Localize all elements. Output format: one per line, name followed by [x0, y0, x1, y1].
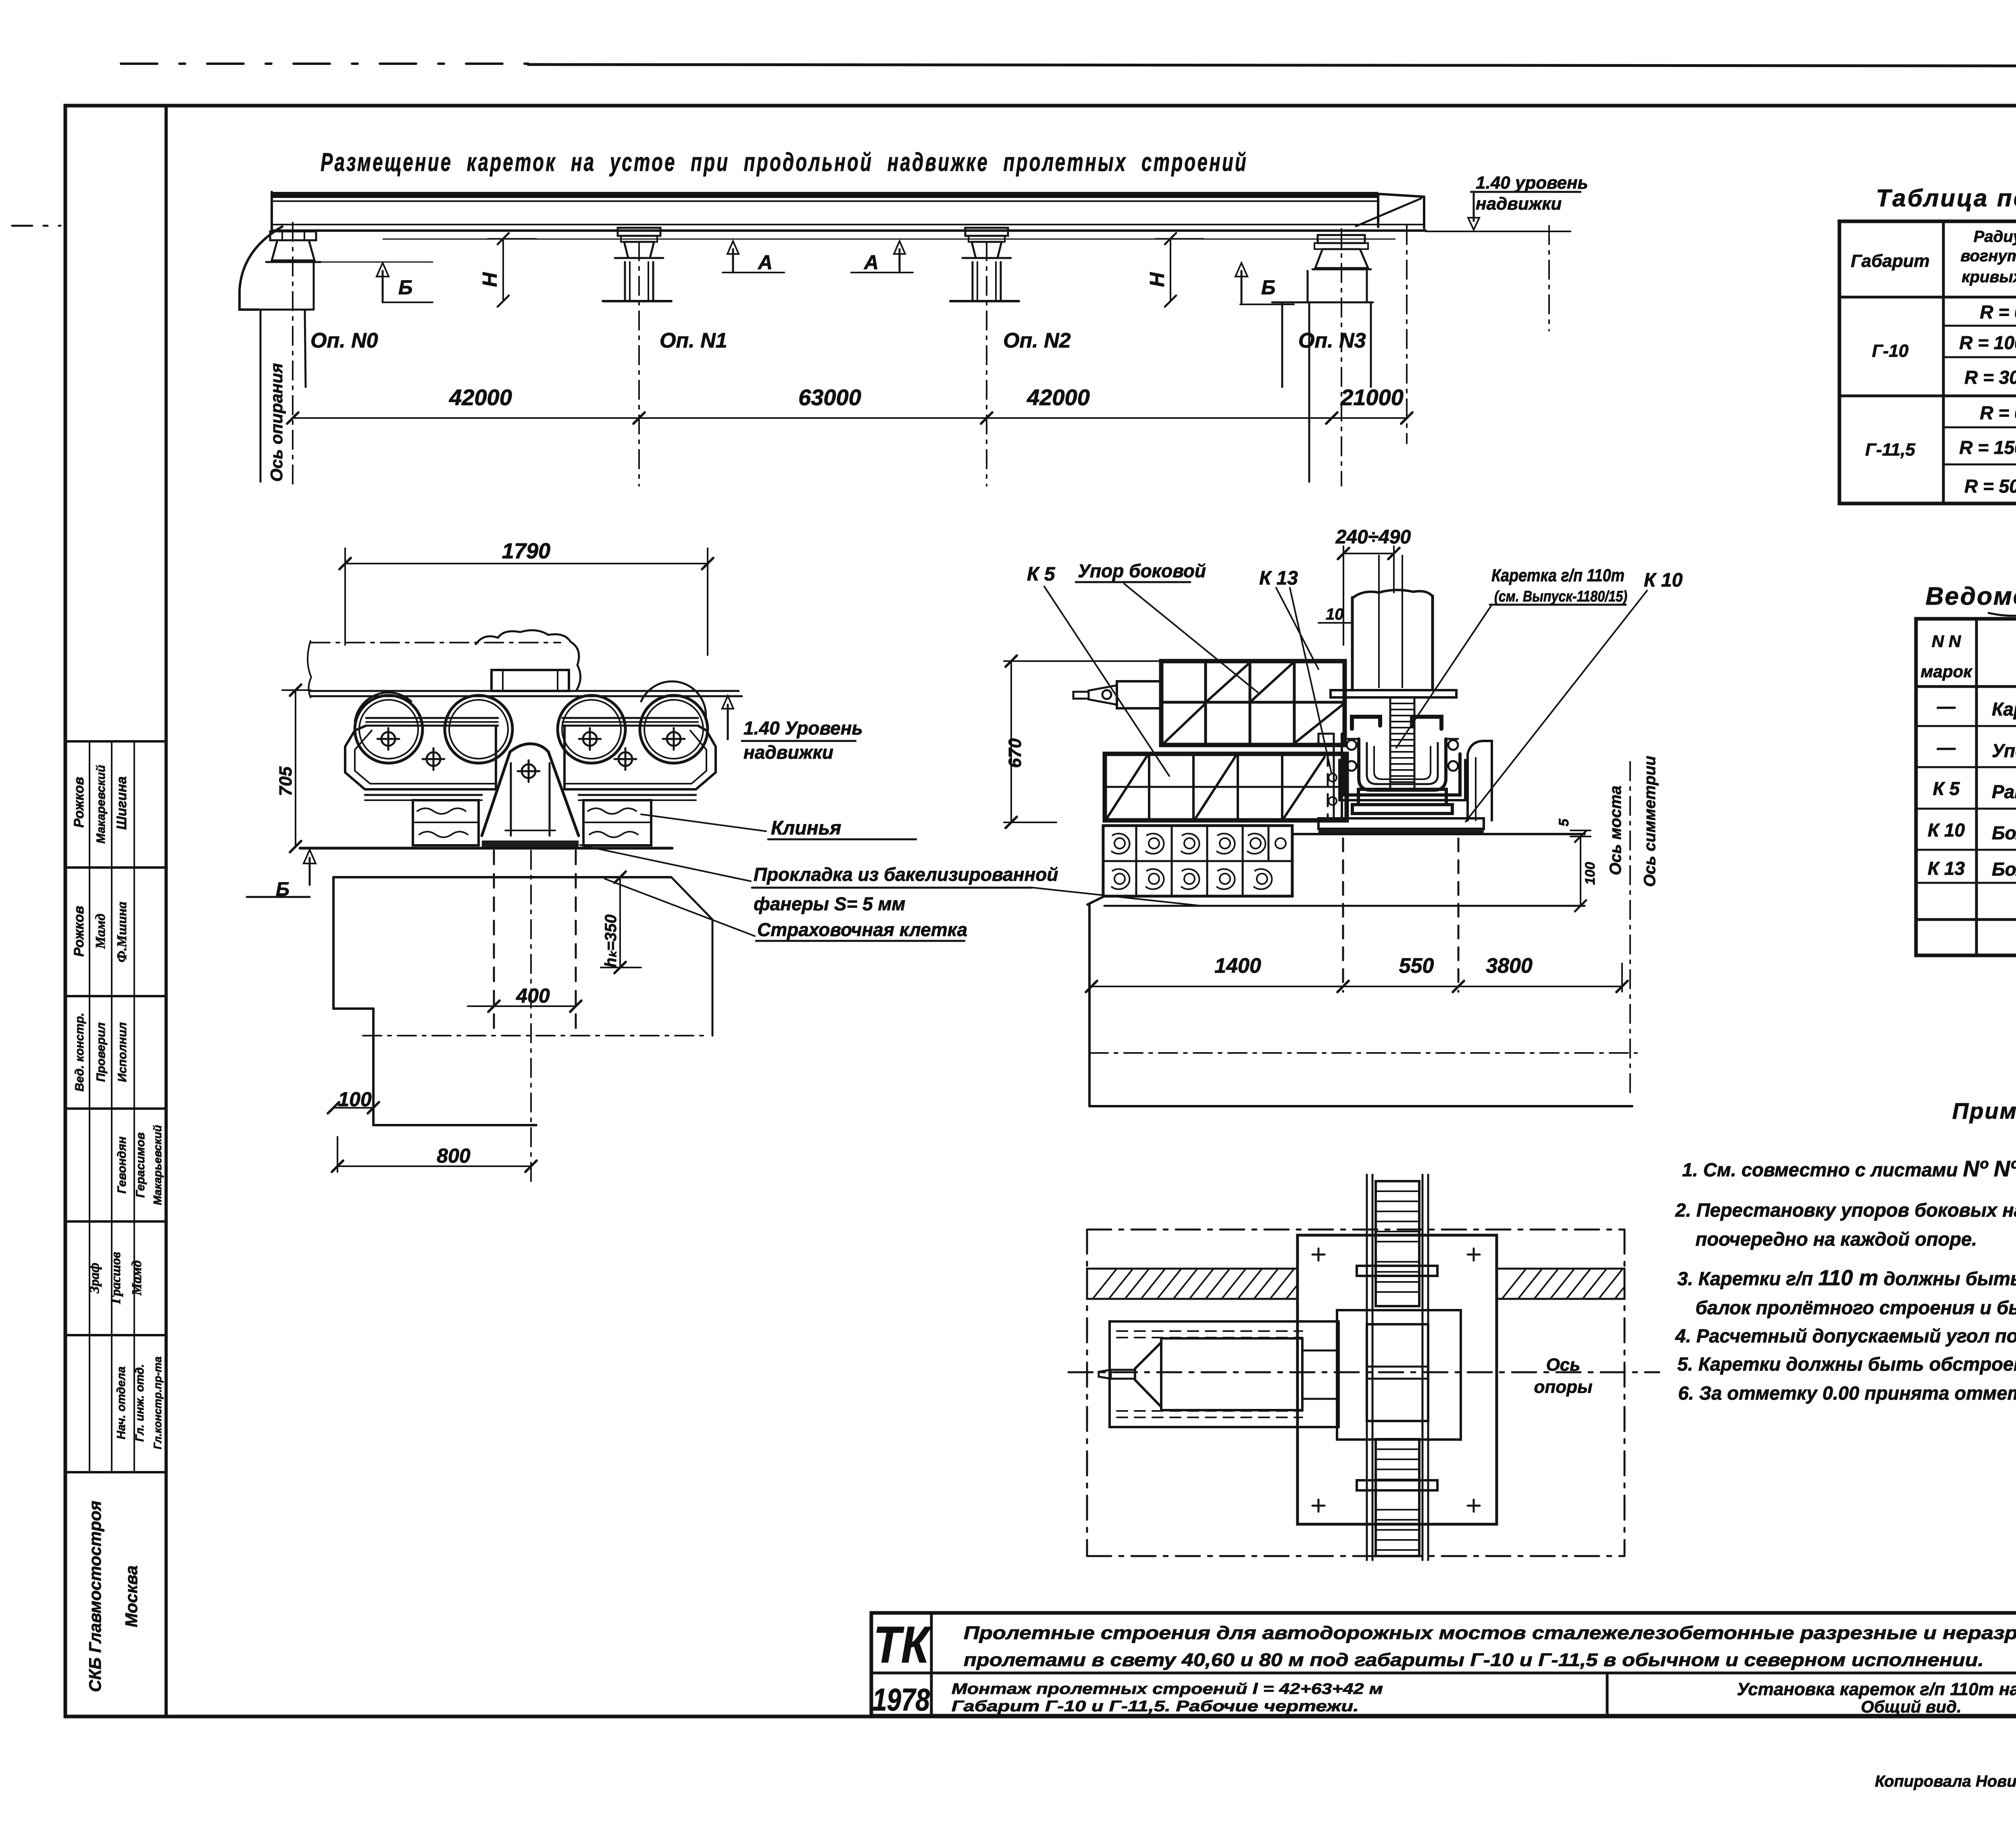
svg-text:Рама опорная: Рама опорная [1992, 781, 2016, 802]
dim 100 [333, 1107, 373, 1109]
small dims 5 and 100 [1570, 830, 1591, 831]
svg-text:400: 400 [516, 984, 550, 1007]
svg-text:1400: 1400 [1214, 954, 1261, 978]
svg-text:Установка кареток г/п 110т: Установка кареток г/п 110т на устое. [1737, 1679, 2016, 1699]
svg-text:5. Каретки должны быть обст: 5. Каретки должны быть обстроены страхов… [1677, 1353, 2016, 1375]
svg-text:800: 800 [437, 1144, 471, 1167]
svg-text:R = 0: R = 0 [1980, 402, 2016, 423]
center line of pier [1068, 1371, 1659, 1373]
svg-text:Общий вид.: Общий вид. [1861, 1697, 1962, 1716]
svg-text:К 5: К 5 [1027, 564, 1056, 585]
svg-text:Нач. отдела: Нач. отдела [115, 1367, 128, 1440]
svg-text:Рожков: Рожков [71, 777, 87, 828]
svg-text:Грасшов: Грасшов [108, 1252, 123, 1304]
svg-text:42000: 42000 [1027, 385, 1090, 410]
svg-text:100: 100 [1583, 862, 1598, 885]
А arrows [723, 272, 784, 273]
svg-text:Г-10: Г-10 [1872, 341, 1909, 361]
jack body [1161, 1338, 1302, 1410]
svg-text:надвижки: надвижки [744, 742, 833, 763]
svg-text:(см. Выпуск-1180/15): (см. Выпуск-1180/15) [1494, 588, 1627, 605]
svg-text:Гл. инж. отд.: Гл. инж. отд. [133, 1364, 146, 1442]
hatched wall band right [1497, 1269, 1624, 1299]
support Оп.N0 bearing [270, 231, 316, 240]
svg-text:Вед. констр.: Вед. констр. [73, 1013, 86, 1092]
svg-text:4. Расчетный допускаемый уго: 4. Расчетный допускаемый угол поворота к… [1675, 1325, 2016, 1346]
svg-text:240÷490: 240÷490 [1335, 526, 1411, 548]
svg-text:Болт анкерный: Болт анкерный [1992, 822, 2016, 843]
svg-text:марок: марок [1920, 662, 1972, 681]
svg-text:63000: 63000 [798, 385, 861, 410]
svg-text:Зраф: Зраф [87, 1263, 102, 1294]
upper roller chain [1376, 1181, 1419, 1306]
side stop lower box [1105, 754, 1347, 820]
svg-text:Оп. N1: Оп. N1 [660, 329, 727, 352]
svg-text:Упор боковой: Упор боковой [1992, 740, 2016, 761]
svg-text:Гл.констр.пр-та: Гл.констр.пр-та [152, 1357, 164, 1449]
svg-text:А: А [863, 251, 879, 274]
svg-text:К 5: К 5 [1933, 778, 1960, 799]
10 dim underline [1318, 622, 1351, 624]
top dashed trim line [121, 62, 528, 65]
boundary dash-dot rectangle [1087, 1230, 1624, 1556]
svg-text:К 13: К 13 [1928, 858, 1965, 879]
svg-text:Клинья: Клинья [771, 818, 841, 839]
svg-text:пролетами в свету 40,60 и 8: пролетами в свету 40,60 и 80 м под габар… [964, 1650, 1984, 1670]
dim 1790 [345, 563, 708, 564]
svg-text:Ведомость марок на устой: Ведомость марок на устой [1926, 583, 2016, 610]
svg-text:Ось моста: Ось моста [1607, 786, 1624, 875]
svg-text:Каретка в сборе: Каретка в сборе [1992, 699, 2016, 720]
lower pot [1358, 789, 1446, 805]
dim h3=350 vertical [619, 877, 621, 967]
svg-text:3. Каретки г/п 110 т должны: 3. Каретки г/п 110 т должны быть установ… [1677, 1266, 2016, 1290]
detail 1 labels [276, 539, 1058, 1167]
svg-text:Таблица переменных величин: Таблица переменных величин [1876, 185, 2016, 212]
svg-text:Б: Б [1261, 276, 1275, 299]
bearing plate [1297, 1235, 1497, 1524]
svg-text:Б: Б [398, 276, 412, 299]
svg-text:Мамд: Мамд [93, 913, 108, 949]
dim 400 [494, 1005, 576, 1007]
svg-text:Копировала Новикова: Копировала Новикова [1875, 1773, 2016, 1790]
Б arrow right [1241, 271, 1243, 304]
girder bottom chord [272, 224, 1423, 225]
top T brackets [1352, 717, 1380, 729]
Н dim right [1170, 239, 1171, 301]
svg-text:вогнутых: вогнутых [1960, 247, 2016, 265]
1.40 annotation arrow [1473, 193, 1475, 221]
bolts [377, 728, 685, 782]
lower roller chain [1376, 1439, 1419, 1556]
elevation labels [310, 329, 1366, 352]
level reference line [1426, 231, 1570, 232]
support Оп.N2 [965, 228, 1008, 236]
stamp sub columns [89, 741, 90, 1472]
svg-text:Габарит: Габарит [1851, 251, 1930, 271]
wheels [355, 695, 423, 763]
svg-text:100: 100 [338, 1088, 372, 1111]
svg-text:3800: 3800 [1486, 954, 1533, 978]
dimension line [293, 417, 1407, 419]
svg-text:Болт М 27: Болт М 27 [1992, 859, 2016, 880]
svg-text:Москва: Москва [122, 1565, 141, 1627]
support Оп.N3 bearing [1318, 235, 1365, 243]
hidden pier edges dashed [1342, 838, 1344, 992]
axes dash-dot [293, 223, 1549, 486]
rail bands [366, 717, 498, 719]
Б arrow left [317, 262, 433, 263]
svg-text:Оп. N3: Оп. N3 [1298, 329, 1366, 352]
stamp row dividers [65, 740, 166, 743]
+ marks [1312, 1248, 1480, 1512]
svg-text:705: 705 [276, 766, 296, 796]
svg-text:Размещение кареток на устое: Размещение кареток на устое при продольн… [321, 148, 1248, 177]
dim 800 [337, 1165, 531, 1167]
detail 2 labels [1005, 526, 1683, 978]
spring / ring stack [1359, 739, 1446, 790]
left margin trim dashes [12, 225, 60, 227]
abutment N3 [1307, 271, 1309, 302]
svg-text:Герасимов: Герасимов [134, 1132, 147, 1198]
svg-text:Шигина: Шигина [114, 776, 129, 830]
lower band [365, 794, 482, 796]
svg-text:К 13: К 13 [1259, 568, 1298, 589]
axis of bridge [1629, 762, 1631, 1096]
bottom flange of girder [310, 690, 739, 692]
girder left end [271, 192, 273, 231]
svg-text:К 10: К 10 [1928, 820, 1965, 841]
hatched wall band left [1087, 1269, 1297, 1299]
leaders [1044, 587, 1169, 776]
svg-text:R = 3000: R = 3000 [1964, 367, 2016, 388]
svg-text:1.40 уровень: 1.40 уровень [1476, 173, 1588, 193]
section mark Б bottom left [309, 858, 311, 885]
svg-text:6. За отметку 0.00 принята от: 6. За отметку 0.00 принята отметка насып… [1678, 1382, 2016, 1404]
middle body [1367, 1324, 1428, 1421]
svg-text:1978: 1978 [873, 1682, 930, 1717]
svg-text:R = 0: R = 0 [1980, 302, 2016, 322]
svg-text:балок пролётного строения и: балок пролётного строения и быть паралле… [1695, 1297, 2016, 1318]
svg-text:К 10: К 10 [1644, 570, 1683, 591]
svg-text:Монтаж пролетных строений: Монтаж пролетных строений l = 42+63+42 м [952, 1681, 1383, 1698]
girder axis dash-dot [311, 642, 560, 643]
svg-text:Каретка г/п 110т: Каретка г/п 110т [1491, 566, 1624, 585]
svg-text:СКБ Главмостостроя: СКБ Главмостостроя [85, 1501, 104, 1692]
svg-text:Радиус: Радиус [1974, 228, 2016, 246]
nozzle [1117, 681, 1161, 708]
svg-text:фанеры S= 5 мм: фанеры S= 5 мм [754, 893, 906, 914]
cylinder (punch) [1352, 590, 1433, 598]
Н dim left [502, 239, 504, 301]
dim 670 [1010, 661, 1012, 822]
carriage rails vertical [1366, 1175, 1368, 1560]
base line [300, 847, 672, 850]
abutment under carriage [333, 876, 671, 878]
wood rings [1111, 834, 1286, 889]
pedestal on carriage [492, 670, 569, 691]
leader Клинья [641, 814, 766, 831]
leader Страховочная [605, 879, 755, 936]
base plate + pad [1318, 818, 1484, 829]
svg-text:Исполнил: Исполнил [116, 1022, 129, 1082]
svg-text:5: 5 [1556, 818, 1572, 826]
svg-text:Ось опирания: Ось опирания [267, 363, 286, 482]
right support bracket [1468, 741, 1492, 820]
svg-text:Упор боковой: Упор боковой [1078, 560, 1206, 581]
svg-text:Ось симметрии: Ось симметрии [1641, 756, 1659, 887]
svg-text:Пролетные строения для авто: Пролетные строения для автодорожных мост… [964, 1623, 2016, 1643]
left side plate [345, 726, 496, 789]
central wedge [482, 744, 579, 836]
svg-text:Примечания:: Примечания: [1952, 1098, 2016, 1124]
right side plate [564, 726, 716, 789]
svg-text:10: 10 [1326, 605, 1344, 623]
svg-text:Ось: Ось [1546, 1355, 1581, 1375]
abutment N0 outline [240, 227, 282, 310]
svg-text:R = 5000: R = 5000 [1964, 476, 2016, 497]
svg-text:1790: 1790 [502, 539, 550, 563]
pad (hatched strip) [482, 841, 579, 847]
svg-text:надвижки: надвижки [1476, 194, 1562, 214]
svg-text:Н: Н [479, 272, 501, 287]
svg-text:Б: Б [276, 879, 289, 900]
leader Прокладка [580, 845, 751, 881]
bottom dims [1091, 986, 1622, 987]
svg-text:Ф.Мшина: Ф.Мшина [115, 902, 129, 963]
svg-text:Мамд: Мамд [129, 1260, 144, 1296]
svg-text:Рожков: Рожков [71, 906, 87, 957]
svg-text:Гевондян: Гевондян [115, 1136, 129, 1194]
svg-text:R = 15000: R = 15000 [1959, 437, 2016, 458]
svg-text:кривых, м: кривых, м [1962, 268, 2016, 286]
svg-text:опоры: опоры [1534, 1377, 1592, 1397]
svg-text:1.40 Уровень: 1.40 Уровень [744, 718, 863, 739]
svg-text:Габарит Г-10 и Г-11,5. Раб: Габарит Г-10 и Г-11,5. Рабочие чертежи. [952, 1698, 1359, 1715]
dim 705 vertical [295, 690, 296, 847]
svg-text:42000: 42000 [449, 385, 512, 410]
side stop upper box [1161, 661, 1345, 745]
jack housing [1110, 1321, 1339, 1427]
threaded rod [1390, 697, 1414, 789]
girder top chord [272, 192, 1378, 198]
svg-text:Макарьевский: Макарьевский [151, 1125, 164, 1205]
svg-text:Страховочная клетка: Страховочная клетка [757, 919, 967, 940]
girder right end wedge [1377, 194, 1379, 227]
svg-text:ТК: ТК [873, 1616, 931, 1674]
wood wedge blocks [413, 800, 479, 845]
slab break cloud [476, 630, 581, 690]
svg-text:Н: Н [1146, 272, 1168, 287]
stamp column right edge [165, 106, 168, 1716]
svg-text:Макаревский: Макаревский [94, 765, 108, 843]
svg-text:Оп. N2: Оп. N2 [1003, 329, 1071, 352]
svg-text:R = 10000: R = 10000 [1959, 332, 2016, 353]
svg-text:—: — [1937, 696, 1956, 717]
svg-text:Оп. N0: Оп. N0 [310, 329, 378, 352]
svg-text:—: — [1937, 737, 1956, 758]
svg-text:21000: 21000 [1340, 385, 1404, 410]
side posts [1341, 734, 1343, 818]
svg-text:N N: N N [1932, 632, 1962, 651]
svg-text:2. Перестановку упоров боков: 2. Перестановку упоров боковых на каретк… [1675, 1199, 2016, 1221]
svg-text:Г-11,5: Г-11,5 [1865, 440, 1916, 460]
dim 240/490 [1343, 553, 1394, 554]
svg-text:поочередно на каждой опоре.: поочередно на каждой опоре. [1695, 1228, 1977, 1250]
svg-text:А: А [757, 251, 773, 274]
center axis [530, 851, 532, 1181]
svg-text:670: 670 [1005, 738, 1025, 768]
svg-text:hₖ=350: hₖ=350 [602, 914, 620, 967]
svg-text:550: 550 [1399, 954, 1434, 978]
svg-text:Прокладка из бакелизированной: Прокладка из бакелизированной [754, 864, 1058, 885]
plate under cylinder [1331, 690, 1456, 697]
1.40 annotation arrow up [727, 705, 729, 739]
wood crib [1103, 826, 1292, 896]
inner rectangle [1337, 1310, 1461, 1440]
hidden edges dashed [493, 851, 495, 1028]
svg-text:Проверил: Проверил [94, 1022, 108, 1082]
support Оп.N1 [618, 228, 660, 236]
verticals [1942, 221, 1945, 504]
svg-text:1. См. совместно с листами Nº: 1. См. совместно с листами Nº Nº 4, 6, 1… [1682, 1156, 2016, 1181]
stamp texts rotated [71, 765, 164, 1692]
abutment surfaces [1292, 833, 1585, 835]
